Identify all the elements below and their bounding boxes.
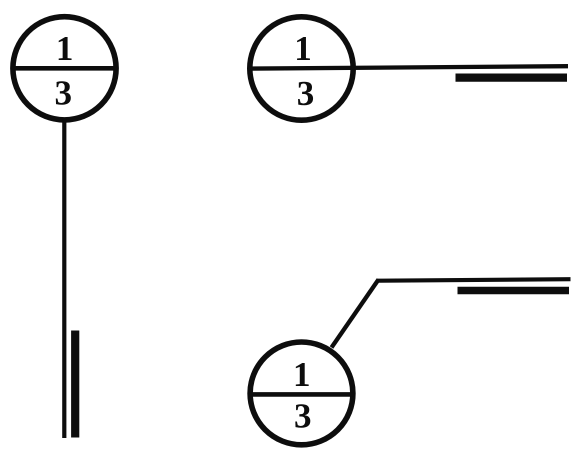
weld bar B (thick horizontal) bbox=[456, 73, 568, 81]
divider line C bbox=[249, 392, 355, 397]
svg-text:3: 3 bbox=[294, 396, 312, 435]
leader wire C diagonal segment bbox=[332, 280, 379, 348]
callout circle C (bottom right, spot symbol 1/3) bbox=[250, 342, 353, 445]
svg-text:1: 1 bbox=[294, 29, 312, 68]
weld bar A (thick vertical) bbox=[71, 331, 79, 438]
leader wire C horizontal segment bbox=[377, 279, 571, 281]
reference line B (divider continuing right) bbox=[249, 66, 569, 68]
svg-text:1: 1 bbox=[293, 355, 311, 394]
svg-text:3: 3 bbox=[297, 74, 315, 113]
callout circle A (left, spot symbol 1/3) bbox=[13, 17, 116, 120]
weld bar C (thick horizontal) bbox=[458, 287, 570, 294]
svg-text:1: 1 bbox=[56, 29, 74, 68]
svg-text:3: 3 bbox=[54, 74, 72, 113]
callout circle B (top right, spot symbol 1/3) bbox=[250, 17, 353, 120]
divider line A bbox=[12, 66, 118, 71]
leader wire A (vertical) bbox=[62, 119, 66, 438]
